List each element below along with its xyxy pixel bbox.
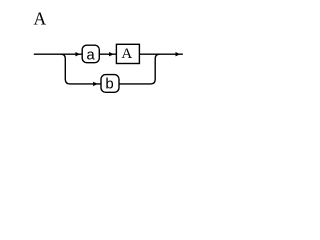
arrow into nonterminal A [109,52,114,56]
terminal a box [82,45,99,63]
arrow into terminal b [93,82,98,86]
svg-text:A: A [121,46,132,62]
arrow at diagram end [176,52,181,56]
terminal b box [101,75,119,93]
svg-text:A: A [34,8,47,28]
railroad syntax diagram for production A [0,0,235,123]
arrow into terminal a [75,52,80,56]
wire: exit rail [139,53,183,55]
svg-text:a: a [86,46,95,64]
wire: branch down to alternative b [61,54,101,84]
wire: a to A [99,53,116,55]
wire: entry rail [34,53,82,55]
svg-text:b: b [105,76,114,94]
wire: b back up to main rail [119,54,160,84]
nonterminal A box [116,44,139,63]
